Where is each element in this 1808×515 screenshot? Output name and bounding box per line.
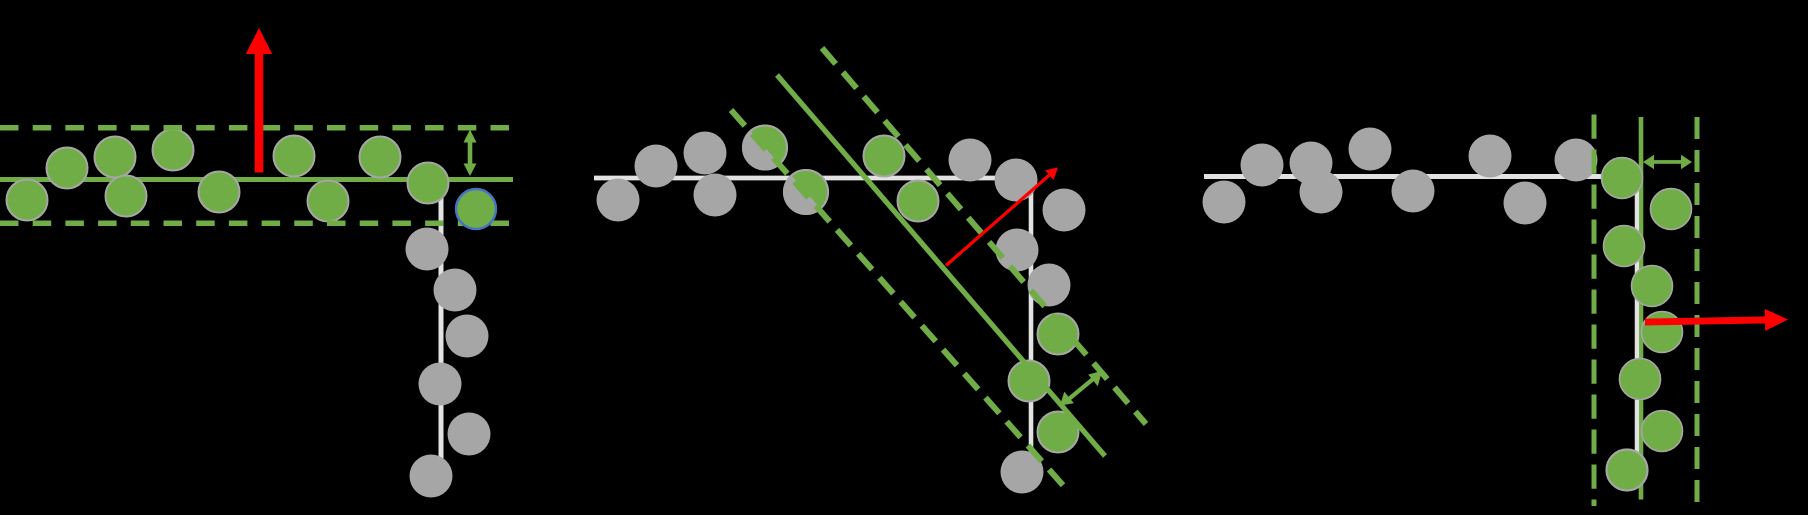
atom green p3 7 [1642,411,1683,452]
atom gray chain 6 [410,455,453,498]
atom gray p2 corner [1043,189,1086,232]
wire: white vertical bond line panel 2 [1029,178,1034,452]
atom green p3 3 [1604,226,1645,267]
arrow red right panel 3 [1645,309,1788,333]
wire: white horizontal surface line panel 2 [594,176,1033,181]
atom green p2 v3 [1038,412,1079,453]
dashed upper bound line panel 1 [0,125,510,131]
atom green row 3 [95,137,136,178]
atom gray p3 3 [1290,142,1333,185]
atom gray chain 5 [448,413,491,456]
atom gray p3 7 [1469,135,1512,178]
atom green row 2 [47,148,88,189]
wire: white horizontal surface line panel 3 [1204,174,1602,179]
atom gray p2 v2 [1028,264,1071,307]
atom green row 1 [7,180,48,221]
wire: white vertical bond line panel 3 [1635,176,1639,453]
atom gray p3 9 [1555,139,1598,182]
dashed diagonal left [731,110,1069,492]
atom green p3 4 [1632,266,1673,307]
atom gray p3 1 [1203,181,1246,224]
atom green p3 2 [1651,189,1692,230]
atom gray p3 6 [1392,170,1435,213]
atom gray chain 2 [434,269,477,312]
atom gray p2 h1 [597,179,640,222]
atom gray p2 h2 [635,145,678,188]
wire: white vertical bond line panel 1 [439,184,444,478]
atom green row 6 [199,172,240,213]
atom green p3 8 [1607,450,1648,491]
wire: solid green surface line panel 1 [0,177,513,182]
wire: solid green step line vertical [1639,117,1644,500]
atom green row 10 [408,163,449,204]
atom gray p3 5 [1349,128,1392,171]
atom green row 9 [360,137,401,178]
atom green row 5 [153,130,194,171]
atom gray p2 h5 [949,139,992,182]
atom green p2 v1 [1038,314,1079,355]
atom green p2 v2 [1009,361,1050,402]
arrow green dimension horizontal panel 3 [1643,155,1692,169]
atom adatom blue outline [456,189,496,229]
atom green p3 6 [1620,359,1661,400]
arrow red up panel 1 [246,28,272,173]
dashed vertical left panel 3 [1592,115,1597,507]
atom gray p2 h3 [684,132,727,175]
atom gray chain 4 [419,363,462,406]
atom gray p3 2 [1241,144,1284,187]
atom green p3 5 [1642,312,1683,353]
atom green p2 s1 [864,136,905,177]
solid green step line (diagonal) [777,75,1105,456]
atom gray p3 4 [1300,171,1343,214]
dashed vertical right panel 3 [1695,117,1700,505]
atom gray p3 8 [1504,182,1547,225]
atom gray p2 h4 [694,174,737,217]
atom gray chain 3 [446,315,489,358]
atom gray p2 v1 [996,229,1039,272]
dashed lower bound line panel 1 [0,221,510,227]
arrow green dimension diagonal panel 2 [1060,371,1102,406]
atom green row 8 [308,181,349,222]
arrow red diagonal panel 2 [945,168,1058,267]
atom gray chain 1 [406,228,449,271]
atom half gray-green 2 [783,169,829,215]
atom half gray-green 1 [742,125,788,171]
arrow green dimension vertical panel 1 [464,130,477,177]
dashed diagonal right [822,48,1146,424]
atom green p3 1 [1602,158,1643,199]
atom green row 4 [106,176,147,217]
atom gray p2 bottom [1001,451,1044,494]
atom green p2 s2 [898,181,939,222]
atom green row 7 [274,136,315,177]
atom gray p2 h6 [995,159,1038,202]
